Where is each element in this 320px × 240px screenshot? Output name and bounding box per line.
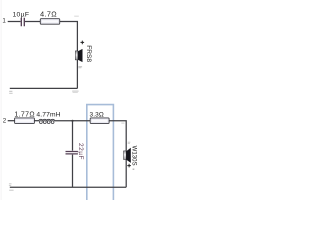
wire top return rail (10, 87, 78, 89)
wire FRS8 to return rail (76, 50, 78, 88)
wire terminal 1 to C1 (8, 21, 21, 23)
resistor R3 body (90, 118, 109, 124)
speaker W130S micro label (128, 141, 131, 144)
wire R3 to W130S corner and drop (109, 121, 126, 150)
wire R2 to L1 (34, 120, 39, 122)
svg-text:22µF: 22µF (77, 143, 84, 160)
svg-text:1: 1 (2, 18, 6, 25)
speaker FRS8 cone (78, 49, 83, 62)
inductor L1 coil (39, 119, 55, 121)
svg-text:FRS8: FRS8 (85, 45, 92, 62)
speaker W130S cone (126, 148, 131, 163)
speaker FRS8 magnet (75, 51, 78, 60)
node A junction dot (71, 120, 73, 122)
wire R1 to FRS8 (top segment and drop) (60, 22, 78, 51)
micro dot below W130S (133, 169, 135, 171)
micro text above bottom rail left end (9, 182, 12, 185)
speaker FRS8 plus sign (81, 41, 85, 45)
selection box (light blue) (87, 105, 114, 200)
micro text below top rail corner (72, 91, 78, 92)
svg-text:W130S: W130S (131, 146, 138, 166)
micro above top corner (74, 16, 79, 17)
svg-text:4.77mH: 4.77mH (36, 111, 60, 118)
speaker W130S plus sign (127, 164, 131, 168)
speaker W130S magnet (124, 151, 127, 160)
svg-text:1.77Ω: 1.77Ω (14, 111, 35, 118)
svg-text:2: 2 (3, 118, 7, 125)
resistor R1 body (40, 19, 59, 25)
wire W130S to bottom rail (125, 150, 127, 187)
micro near W130S corner (121, 123, 124, 124)
faint window edge (0, 0, 2, 200)
micro text below top rail left end (9, 91, 12, 92)
resistor R2 body (15, 118, 35, 124)
svg-text:4.7Ω: 4.7Ω (40, 9, 57, 18)
svg-text:3.3Ω: 3.3Ω (90, 111, 104, 118)
capacitor C2 22uF plates (66, 152, 78, 154)
wire C1 to R1 (25, 21, 40, 23)
wire terminal 2 to R2 (8, 120, 15, 122)
speaker FRS8 micro label (78, 65, 82, 68)
capacitor C1 10uF plates (21, 18, 24, 26)
wire node A to C2 (72, 121, 74, 151)
wire C2 to bottom rail (72, 155, 74, 188)
wire L1 to node A to R3 (55, 120, 91, 122)
wire bottom return rail (10, 186, 126, 188)
svg-text:10µF: 10µF (12, 11, 29, 18)
